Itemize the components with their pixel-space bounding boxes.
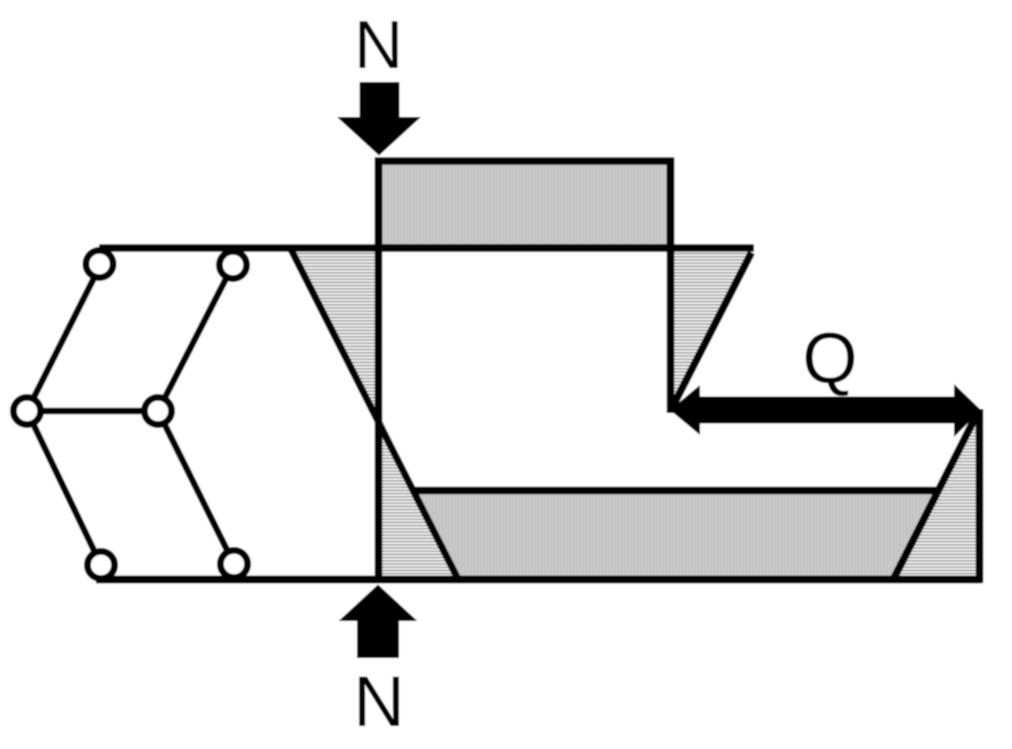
long diagonal L1 (stress distribution line)	[291, 250, 459, 582]
gray stress band bottom (shear plane block)	[418, 494, 933, 577]
bottom band top edge	[415, 487, 938, 495]
pin E	[87, 551, 114, 578]
pin D	[144, 397, 171, 424]
link C-E (left lower diagonal bar)	[27, 411, 101, 565]
bottom plate line	[96, 576, 982, 584]
svg-text:N: N	[353, 663, 404, 742]
link A-C (left upper diagonal bar)	[27, 264, 101, 411]
force arrow N top (downward)	[337, 82, 421, 156]
force arrow N bottom (upward)	[339, 585, 418, 659]
pin A	[86, 250, 113, 277]
link B-D (inner upper diagonal bar)	[158, 265, 233, 411]
right vertical edge v3	[976, 409, 984, 583]
hatched triangle T3 (upper-right bearing stress)	[674, 251, 751, 404]
link C-D (horizontal middle bar)	[27, 408, 158, 415]
pin C	[13, 397, 40, 424]
vertical edge v2	[667, 158, 675, 414]
svg-text:Q: Q	[802, 320, 857, 399]
hatched triangle T1 (upper-left bearing stress)	[292, 251, 376, 416]
link D-F (inner lower diagonal bar)	[158, 411, 234, 564]
top plate line	[99, 244, 754, 252]
pin B	[219, 251, 246, 278]
hypotenuse T3	[673, 253, 752, 408]
force arrow Q (double headed)	[670, 384, 981, 437]
main vertical edge v1	[375, 158, 383, 584]
hatched triangle T2 (lower-left bearing stress)	[382, 419, 456, 577]
svg-text:N: N	[354, 7, 403, 83]
pin F	[220, 550, 247, 577]
hatched triangle T4 (right bearing stress)	[897, 418, 976, 577]
gray stress block top (rect with vertical hatch)	[379, 161, 671, 248]
hypotenuse T4	[893, 413, 978, 580]
